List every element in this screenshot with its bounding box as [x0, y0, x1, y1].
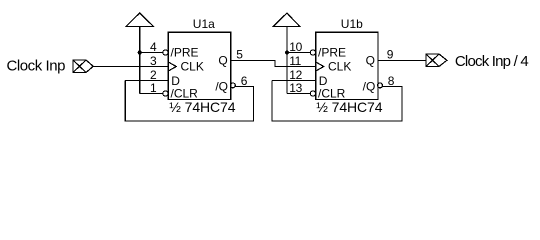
- svg-text:5: 5: [236, 48, 243, 62]
- pin bubble /Q U1a: [231, 83, 236, 88]
- svg-text:9: 9: [387, 48, 394, 62]
- svg-text:2: 2: [150, 68, 157, 82]
- svg-text:½ 74HC74: ½ 74HC74: [316, 99, 382, 115]
- svg-text:3: 3: [150, 54, 157, 68]
- wire pin12 D: [272, 80, 316, 82]
- wire feedback /Q to D U1b: [272, 81, 402, 122]
- port Clock Inp cross: [73, 60, 86, 73]
- wire clock input to pin3: [93, 66, 168, 68]
- svg-text:Clock Inp: Clock Inp: [7, 58, 66, 75]
- svg-text:CLK: CLK: [328, 59, 351, 73]
- wire pin9 Q to output port: [378, 60, 426, 62]
- flip-flop U1b body: [316, 32, 378, 99]
- svg-text:1: 1: [150, 81, 157, 95]
- wire pin1 /CLR: [140, 93, 163, 95]
- port Clock Inp / 4 box: [426, 54, 439, 67]
- pin bubble /CLR U1b: [310, 91, 315, 96]
- clk edge mark U1a: [168, 62, 176, 71]
- node junction dot pin10: [285, 51, 289, 55]
- wire feedback /Q to D U1a: [125, 81, 253, 122]
- pin bubble /PRE U1a: [163, 50, 168, 55]
- port Clock Inp arrow: [86, 60, 93, 73]
- svg-text:8: 8: [388, 74, 395, 88]
- node port cross dot (output): [431, 59, 433, 61]
- svg-text:Q: Q: [218, 53, 227, 67]
- clk edge mark U1b: [316, 62, 324, 71]
- svg-text:/Q: /Q: [215, 79, 228, 93]
- flip-flop U1a body: [168, 32, 230, 99]
- port Clock Inp / 4 arrow: [439, 54, 447, 67]
- svg-text:11: 11: [289, 54, 301, 68]
- pin bubble /Q U1b: [378, 83, 383, 88]
- wire pin13 /CLR: [287, 93, 310, 95]
- wire pin2 D: [125, 80, 168, 82]
- svg-text:12: 12: [289, 68, 302, 82]
- svg-text:/PRE: /PRE: [318, 45, 346, 59]
- svg-text:10: 10: [289, 40, 302, 54]
- svg-text:4: 4: [150, 40, 157, 54]
- svg-text:/Q: /Q: [363, 79, 376, 93]
- wire VCC stem U1b: [286, 27, 288, 94]
- pin bubble /CLR U1a: [163, 91, 168, 96]
- svg-text:/PRE: /PRE: [171, 45, 199, 59]
- svg-text:/CLR: /CLR: [171, 86, 199, 100]
- svg-text:½ 74HC74: ½ 74HC74: [169, 99, 235, 115]
- svg-text:U1b: U1b: [341, 17, 363, 31]
- port Clock Inp / 4 cross: [426, 54, 439, 67]
- svg-text:U1a: U1a: [193, 17, 215, 31]
- wire VCC stem U1a: [139, 27, 141, 94]
- svg-text:6: 6: [241, 74, 248, 88]
- power symbol VCC (right): [273, 13, 300, 27]
- node junction dot pin4: [138, 51, 142, 55]
- svg-text:CLK: CLK: [181, 59, 204, 73]
- svg-text:Clock Inp / 4: Clock Inp / 4: [455, 53, 528, 70]
- pin bubble /PRE U1b: [310, 50, 315, 55]
- wire pin5 Q to pin11 CLK: [231, 61, 316, 67]
- power symbol VCC (left): [126, 13, 153, 27]
- port Clock Inp box: [73, 60, 86, 73]
- node port cross dot (input): [78, 65, 80, 67]
- wire pin4 /PRE: [140, 52, 163, 54]
- svg-text:13: 13: [289, 81, 302, 95]
- svg-text:/CLR: /CLR: [318, 86, 346, 100]
- svg-text:Q: Q: [366, 53, 375, 67]
- wire pin10 /PRE: [287, 52, 310, 54]
